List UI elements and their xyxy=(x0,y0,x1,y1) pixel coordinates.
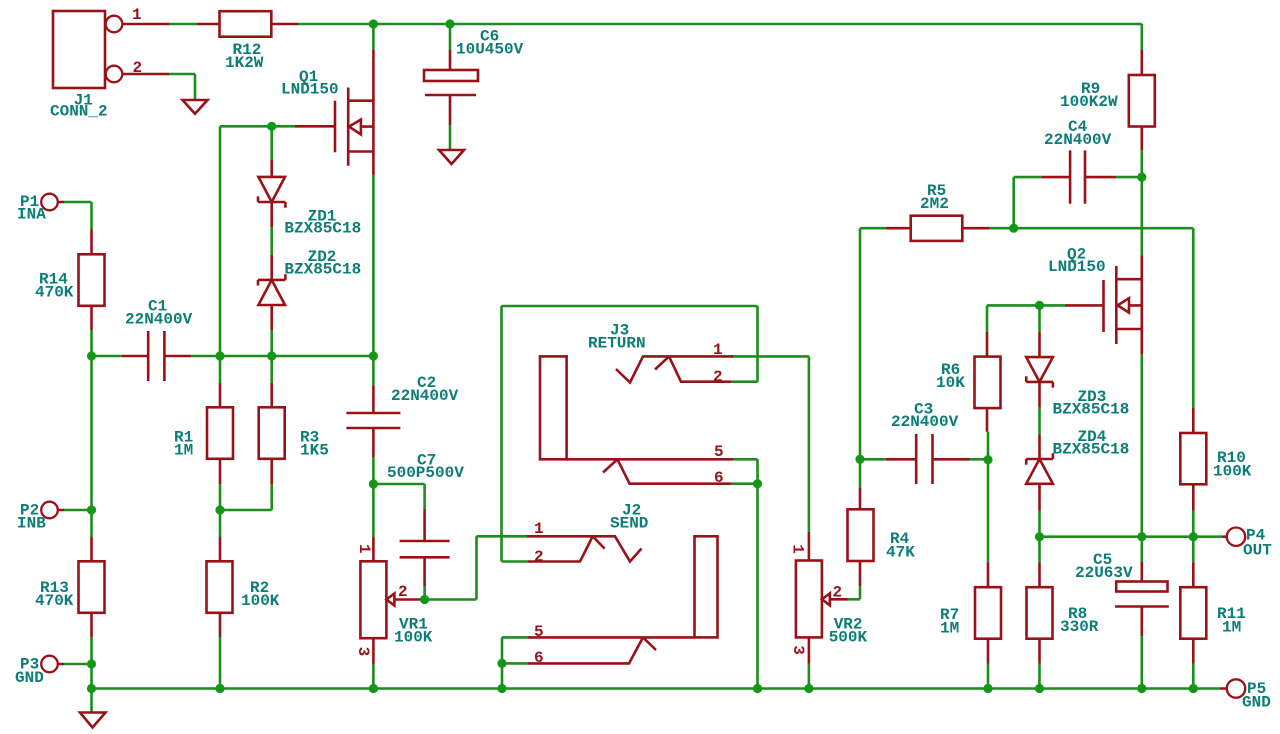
svg-text:500P500V: 500P500V xyxy=(387,464,464,482)
svg-text:22N400V: 22N400V xyxy=(1044,131,1112,149)
svg-text:10U450V: 10U450V xyxy=(456,41,524,59)
svg-text:LND150: LND150 xyxy=(1048,258,1106,276)
svg-text:2: 2 xyxy=(534,548,544,566)
svg-text:GND: GND xyxy=(15,669,44,687)
svg-text:1K2W: 1K2W xyxy=(225,54,264,72)
svg-text:1: 1 xyxy=(355,544,373,554)
svg-text:INB: INB xyxy=(17,515,46,533)
svg-text:GND: GND xyxy=(1242,694,1271,712)
svg-text:RETURN: RETURN xyxy=(588,335,646,353)
svg-text:2: 2 xyxy=(398,583,408,601)
svg-text:2: 2 xyxy=(833,584,843,602)
svg-text:2: 2 xyxy=(713,368,723,386)
svg-text:2: 2 xyxy=(133,59,143,77)
svg-text:330R: 330R xyxy=(1060,618,1099,636)
svg-text:10K: 10K xyxy=(936,374,965,392)
svg-text:6: 6 xyxy=(534,649,544,667)
svg-text:22N400V: 22N400V xyxy=(891,413,959,431)
svg-text:BZX85C18: BZX85C18 xyxy=(1053,401,1130,419)
svg-text:OUT: OUT xyxy=(1243,542,1272,560)
svg-text:47K: 47K xyxy=(886,544,915,562)
svg-text:LND150: LND150 xyxy=(281,81,339,99)
svg-text:470K: 470K xyxy=(35,592,74,610)
svg-text:22U63V: 22U63V xyxy=(1075,564,1133,582)
svg-text:5: 5 xyxy=(714,443,724,461)
svg-text:BZX85C18: BZX85C18 xyxy=(284,261,361,279)
svg-text:470K: 470K xyxy=(35,284,74,302)
svg-text:100K2W: 100K2W xyxy=(1060,93,1118,111)
svg-text:CONN_2: CONN_2 xyxy=(50,103,108,121)
svg-text:5: 5 xyxy=(534,623,544,641)
svg-text:3: 3 xyxy=(789,645,807,655)
svg-text:2M2: 2M2 xyxy=(920,195,949,213)
svg-text:BZX85C18: BZX85C18 xyxy=(284,220,361,238)
svg-text:1M: 1M xyxy=(174,442,193,460)
svg-text:INA: INA xyxy=(17,206,46,224)
svg-text:1K5: 1K5 xyxy=(300,442,329,460)
svg-text:1: 1 xyxy=(132,6,142,24)
svg-text:1M: 1M xyxy=(1222,619,1241,637)
svg-text:500K: 500K xyxy=(829,629,868,647)
svg-text:100K: 100K xyxy=(1213,463,1252,481)
svg-text:1M: 1M xyxy=(940,620,959,638)
svg-text:1: 1 xyxy=(534,520,544,538)
svg-text:22N400V: 22N400V xyxy=(125,311,193,329)
svg-text:BZX85C18: BZX85C18 xyxy=(1053,441,1130,459)
svg-text:SEND: SEND xyxy=(610,515,648,533)
svg-text:1: 1 xyxy=(789,544,807,554)
svg-text:22N400V: 22N400V xyxy=(391,387,459,405)
svg-text:6: 6 xyxy=(714,469,724,487)
svg-text:1: 1 xyxy=(713,341,723,359)
svg-text:100K: 100K xyxy=(394,629,433,647)
svg-text:100K: 100K xyxy=(241,592,280,610)
svg-text:3: 3 xyxy=(354,647,372,657)
